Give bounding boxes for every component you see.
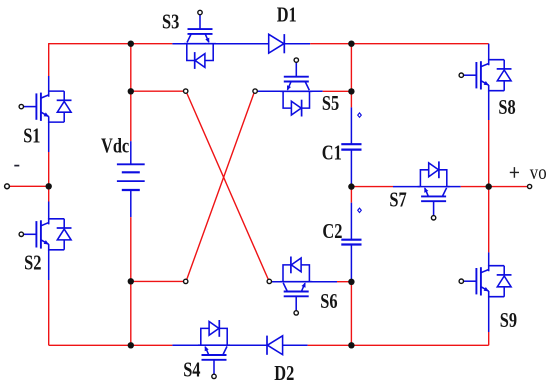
transistor S2 — [19, 219, 71, 250]
transistor S7 — [418, 161, 450, 220]
wire C2 top lead — [350, 203, 352, 240]
svg-text:S3: S3 — [162, 11, 179, 34]
transistor S5 — [280, 58, 312, 117]
svg-text:D1: D1 — [277, 4, 297, 27]
wire S6 branch blue — [272, 281, 338, 283]
wire node to X lower left — [131, 280, 184, 282]
wire bottom bus blue after D2 — [282, 344, 307, 346]
wire right rail upper red — [488, 120, 490, 187]
svg-text:C2: C2 — [322, 220, 342, 243]
wire S6 branch red to node — [337, 281, 351, 283]
node dot bottom bus cap rail — [348, 342, 354, 348]
node circle X top left — [184, 89, 188, 93]
wire bottom bus blue through S4 — [172, 344, 266, 346]
node dot battery upper — [128, 88, 134, 94]
wire bottom bus left red — [49, 344, 173, 346]
wire capacitor rail bottom red — [350, 282, 352, 346]
wire battery bottom lead blue — [130, 190, 132, 217]
terminal circle output vo — [528, 184, 532, 188]
wire left rail middle — [48, 152, 50, 202]
wire output terminal lead — [489, 186, 528, 188]
wire S5 branch blue — [257, 90, 322, 92]
svg-text:S2: S2 — [24, 252, 41, 275]
node dot bottom bus battery — [128, 342, 134, 348]
polarity diamond C1 — [358, 113, 362, 117]
wire C2 bottom lead — [350, 245, 352, 282]
svg-text:S8: S8 — [498, 96, 515, 119]
svg-text:S4: S4 — [183, 358, 201, 381]
node circle X bottom left — [184, 279, 188, 283]
wire top bus blue segment into S3 — [172, 43, 268, 45]
wire top bus right red segment — [310, 43, 489, 45]
wire S7 left stub blue — [393, 186, 420, 188]
node dot S6 cap rail — [348, 279, 354, 285]
capacitor C1 — [341, 144, 361, 149]
wire mid rail red between node and C2 — [350, 187, 352, 203]
transistor S8 — [459, 60, 511, 91]
wire top bus blue segment after D1 — [284, 43, 310, 45]
polarity diamond C2 — [358, 208, 362, 212]
wire S2 emitter stub — [48, 250, 50, 280]
label plus sign — [510, 167, 519, 178]
wire S9 collector stub — [488, 252, 490, 265]
wire right rail mid red — [488, 187, 490, 253]
svg-text:S7: S7 — [389, 189, 406, 212]
transistor S4 — [198, 320, 230, 379]
svg-text:vo: vo — [530, 161, 547, 184]
wire C1 bottom lead — [350, 150, 352, 187]
wire X diagonal top-left to bottom-right — [187, 93, 268, 279]
wire S5 branch red to node — [323, 90, 352, 92]
wire X diagonal top-right to bottom-left — [187, 93, 254, 280]
capacitor C2 — [341, 240, 361, 245]
wire left rail upper — [48, 43, 50, 76]
wire battery top lead blue — [130, 141, 132, 164]
node dot mid cap rail — [348, 183, 354, 189]
node circle X top right — [253, 89, 257, 93]
svg-text:S5: S5 — [322, 92, 339, 115]
node dot top bus cap rail — [348, 41, 354, 47]
node circle X bottom right — [267, 279, 271, 283]
label minus sign — [14, 165, 19, 167]
wire output node red — [461, 186, 489, 188]
wire S2 collector stub — [48, 202, 50, 219]
svg-text:C1: C1 — [322, 141, 342, 164]
svg-text:D2: D2 — [274, 362, 294, 385]
wire top bus left red segment — [49, 43, 173, 45]
diode D1 — [269, 34, 285, 53]
wire S1 emitter stub — [48, 122, 50, 152]
svg-text:S9: S9 — [500, 309, 517, 332]
wire left rail lower — [48, 280, 50, 345]
node dot output — [486, 183, 492, 189]
transistor S6 — [280, 257, 312, 316]
transistor S3 — [184, 10, 216, 69]
wire capacitor rail top red — [350, 44, 352, 108]
wire bottom bus right red — [308, 344, 489, 346]
wire battery rail upper — [130, 44, 132, 142]
node dot battery lower — [128, 278, 134, 284]
node dot negative terminal — [46, 183, 52, 189]
wire S9 emitter stub — [488, 297, 490, 332]
battery Vdc — [117, 164, 145, 190]
wire C1 top lead — [350, 107, 352, 144]
diode D2 — [267, 336, 283, 355]
wire right rail S8 collector blue — [488, 44, 490, 60]
terminal circle negative — [5, 184, 10, 189]
wire battery rail lower — [130, 217, 132, 345]
svg-text:S6: S6 — [320, 290, 337, 313]
svg-text:S1: S1 — [23, 125, 40, 148]
wire S8 emitter stub — [488, 91, 490, 120]
wire negative terminal lead — [9, 185, 48, 187]
wire node to X upper left — [131, 90, 184, 92]
wire mid output red from C node — [351, 186, 393, 188]
transistor S9 — [459, 266, 511, 297]
svg-text:Vdc: Vdc — [101, 135, 129, 158]
node dot S5 cap rail — [348, 88, 354, 94]
wire S7 right stub blue — [447, 186, 461, 188]
wire right rail lower red — [488, 332, 490, 345]
transistor S1 — [19, 91, 71, 122]
node dot top bus battery — [128, 41, 134, 47]
wire S1 collector stub — [48, 76, 50, 91]
